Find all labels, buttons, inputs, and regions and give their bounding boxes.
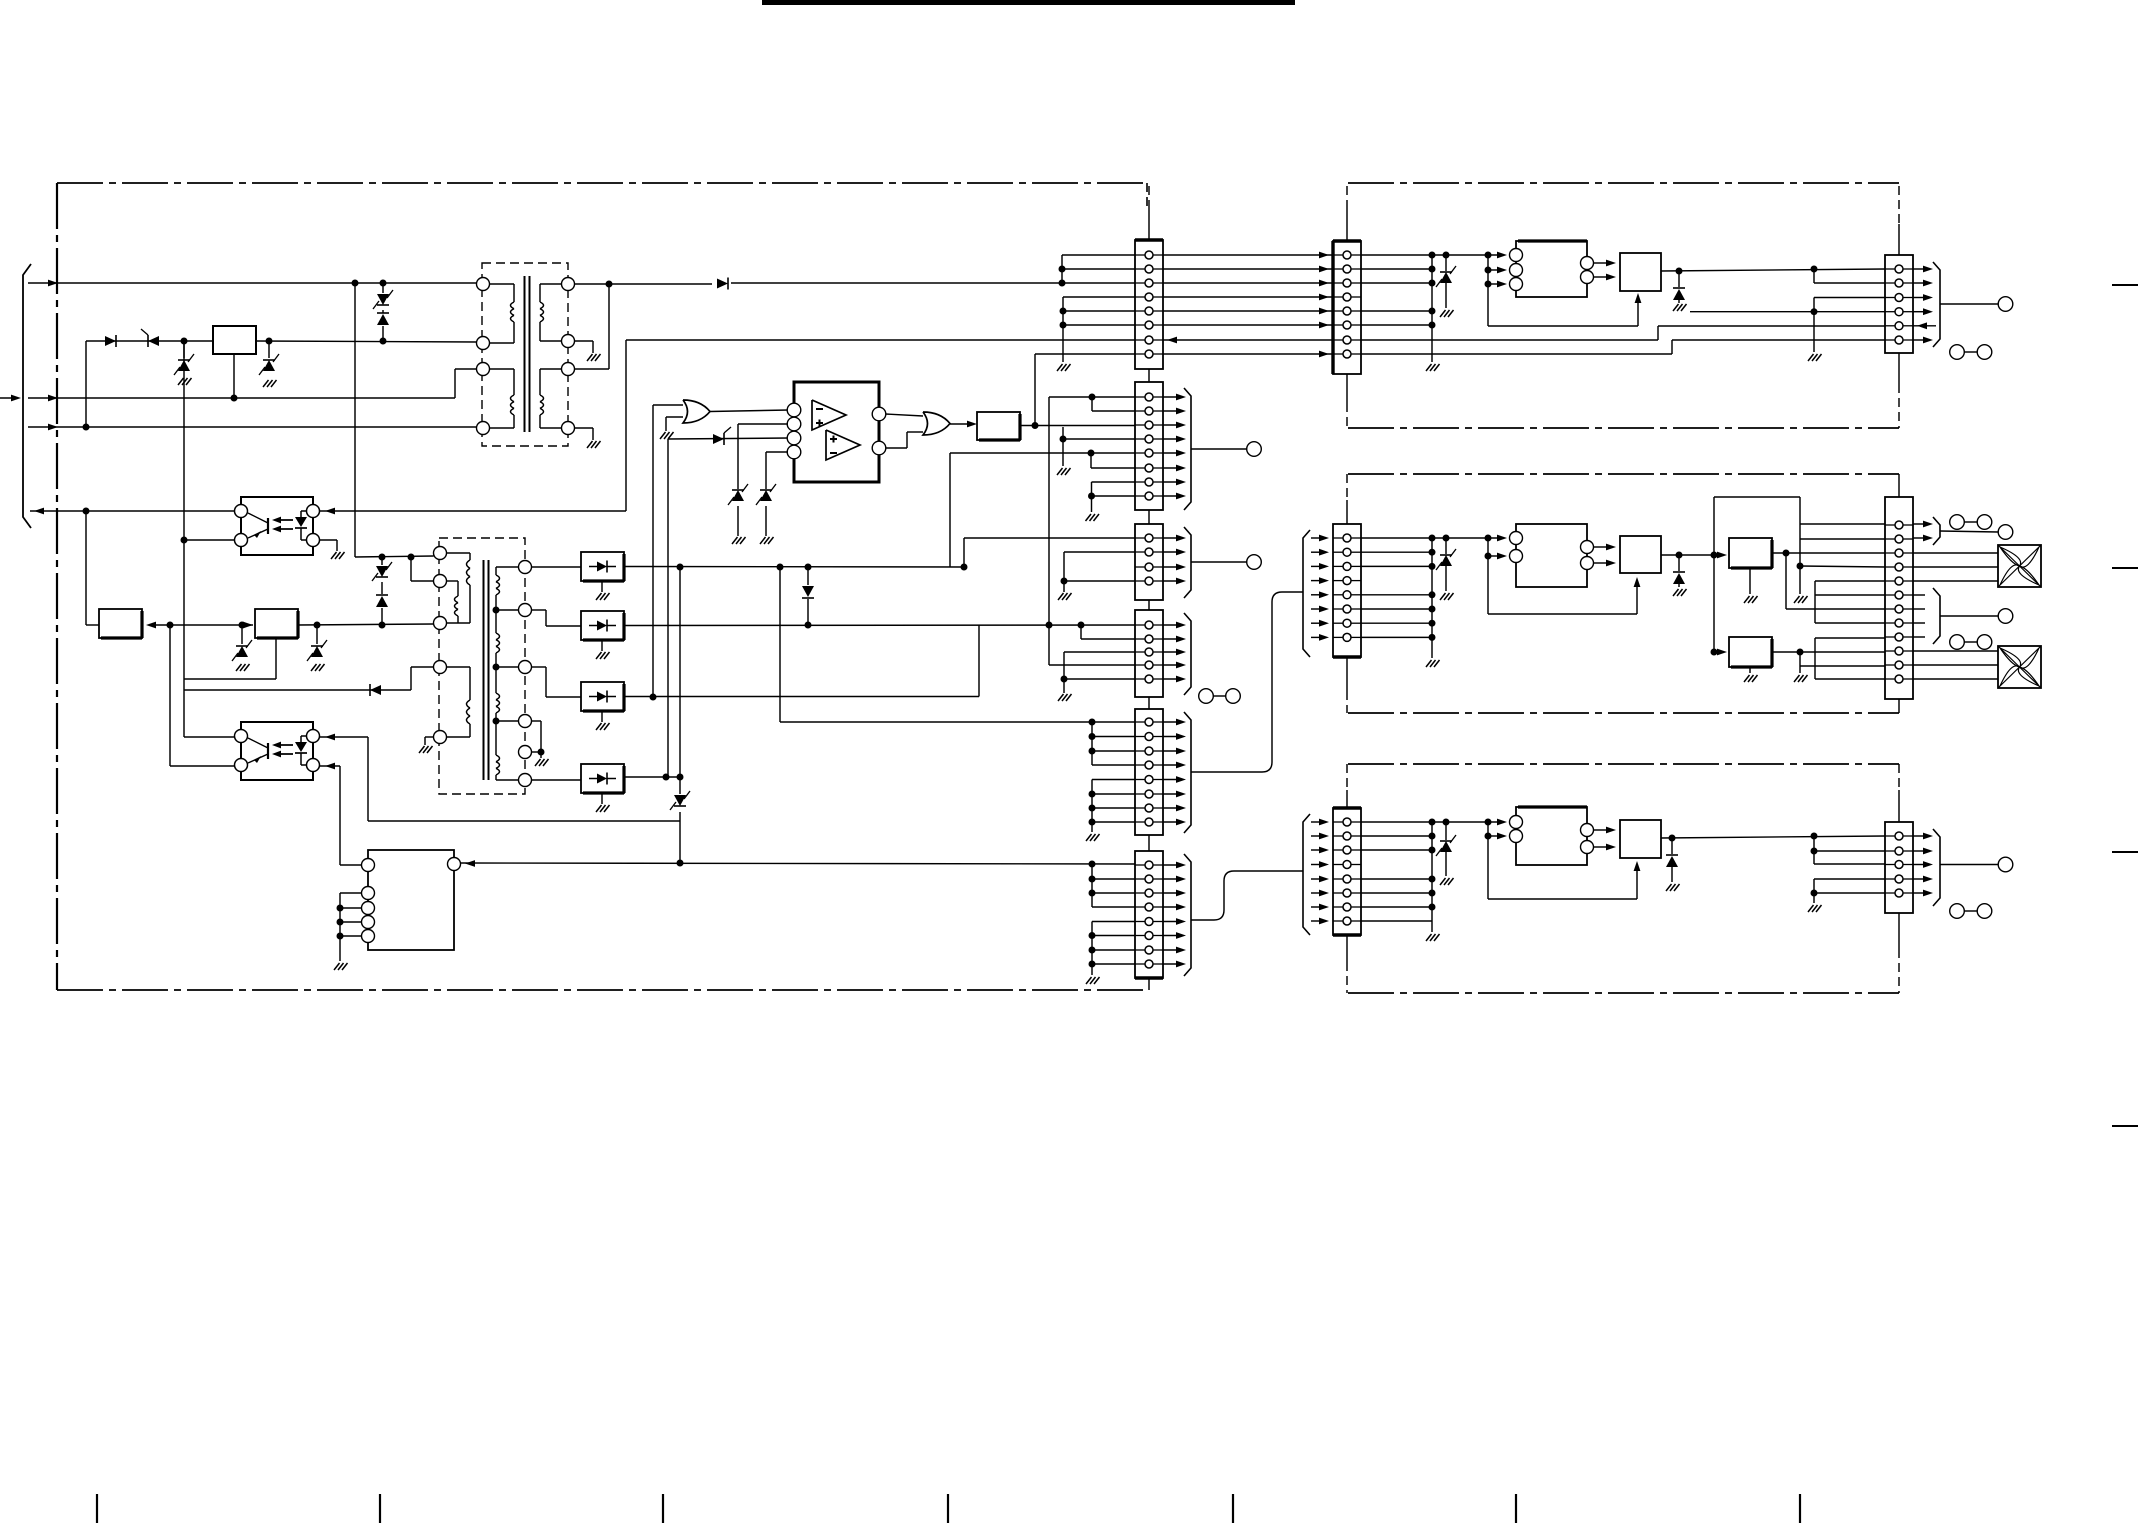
transformer T1 primary winding lower — [490, 368, 515, 370]
transformer T1 pins right — [562, 278, 575, 291]
diode D5 with ground — [1678, 271, 1680, 287]
wire PC1 cathode to x184 rail — [184, 539, 235, 541]
page footer tick marks — [97, 1494, 1800, 1523]
wire CN4 pin2 feed — [1080, 625, 1082, 639]
transformer T2 primary winding tap — [447, 580, 459, 582]
wire diode rail y690 — [184, 689, 411, 691]
zener ZD13 with ground — [1445, 255, 1447, 271]
wire CN5 pins5-8 feed with ground — [1092, 779, 1135, 781]
zener ZD15 with ground — [1445, 822, 1447, 840]
wire CN8 pin4 long — [1690, 311, 1885, 313]
comparator U1 output pins — [872, 407, 886, 421]
diode D3 pointing left — [370, 684, 381, 696]
ground B4 — [1749, 667, 1751, 673]
wire CN11 bottom stub — [1346, 935, 1348, 962]
ground DB4 — [601, 793, 603, 804]
diode D1 — [105, 335, 116, 347]
wire U4 output to B3 — [1661, 554, 1721, 556]
connector CN3 — [1135, 524, 1163, 600]
wire CN9 top stub — [1346, 500, 1348, 524]
wire CN1-CN7 rail 8 — [1163, 353, 1333, 355]
wire CN7 pin7 to CN8 pin5 — [1361, 339, 1658, 341]
rectifier box DB3 — [581, 682, 624, 711]
wire T2 pin8 to DB3 — [532, 666, 547, 668]
ground DB1 — [601, 581, 603, 592]
transformer T1 secondary winding lower — [540, 368, 562, 370]
bus x340 with ground — [339, 893, 341, 961]
transformer T2 pins left — [434, 547, 447, 560]
connector CN10 — [1885, 497, 1913, 699]
connector CN11 — [1333, 808, 1361, 935]
input harness brace — [23, 264, 31, 528]
wire CN1-CN7 rail 2 — [1163, 268, 1333, 270]
zener pair ZD8/ZD9 rail557 to rail625 — [379, 554, 386, 561]
wire brace to terminal — [1940, 531, 1998, 532]
bus left of CN1 pins1-3 — [1061, 255, 1063, 283]
wire w4 junction down to B1 — [83, 508, 90, 515]
wire G1 input 1 from vertical x653 — [653, 404, 683, 406]
wire CN12 pin4/5 with ground — [1814, 878, 1885, 880]
op-amp A1 — [812, 400, 846, 430]
opto coupler PC1 — [241, 497, 313, 555]
wire CN2 pin6 feed from rail453 — [1088, 450, 1095, 457]
jumper circles CN12 — [1950, 904, 1965, 919]
ic IC2 top pin — [362, 859, 375, 872]
opto coupler PC2 — [241, 722, 313, 780]
wire branch to CN3 pin1 — [963, 538, 965, 567]
ic IC5 motor driver — [1516, 807, 1587, 865]
middle-right board boundary — [1348, 474, 1899, 713]
wire CN11 pins2-8 ground bus — [1431, 822, 1433, 932]
wire CN2 pin2 feed — [1091, 397, 1093, 411]
wire CN6 pins2-4 feed — [1091, 864, 1093, 907]
transformer T1 shield box — [482, 263, 568, 446]
wire CN2 brace to terminal — [1191, 448, 1247, 450]
ground B3 — [1749, 568, 1751, 594]
wire A1 out to G2 — [886, 414, 924, 416]
wire T1 pin8 to ground — [575, 427, 594, 429]
connector CN1 — [1135, 240, 1163, 369]
wire CN9 bottom stub — [1346, 657, 1348, 691]
wire T2 pin11 to DB4 — [532, 779, 582, 781]
wire PC2 cathode from x170 rail — [170, 765, 235, 767]
wire CN12 brace to terminal — [1940, 864, 1998, 866]
wire IC5 outputs to U6 — [1594, 829, 1609, 831]
brace CN9 inputs — [1311, 537, 1322, 539]
block B4 — [1729, 637, 1772, 667]
comparator U1 input pins — [787, 403, 801, 417]
rectifier box DB1 — [581, 552, 624, 581]
block U1B — [977, 412, 1020, 440]
wire CN2 pin3/4 feed with ground — [1062, 427, 1064, 466]
wire CN4 pin3/5 feed with ground — [1064, 651, 1135, 653]
wire CN1-CN7 rail 4 — [1163, 296, 1333, 298]
wire CN10 bottom stub — [1898, 699, 1900, 713]
connector CN2 — [1135, 382, 1163, 510]
block U4 — [1620, 536, 1661, 573]
wire CN5 brace to CN7 harness — [1191, 592, 1303, 772]
terminal circle CN3 — [1247, 555, 1262, 570]
transformer T2 core — [483, 560, 485, 780]
title underline — [762, 0, 1295, 5]
op-amp A2 — [826, 430, 860, 460]
wire CN8 pin2 feed — [1813, 269, 1815, 283]
transformer T2 pins right — [519, 561, 532, 574]
brace CN12 outputs — [1913, 835, 1926, 837]
wire B3 branch to CN10 pin7 — [1785, 553, 1787, 609]
link CN4-CN5 — [1148, 697, 1150, 709]
rectifier box DB2 — [581, 611, 624, 640]
bottom-right board boundary — [1348, 764, 1899, 993]
jumper circles CN10a — [1950, 515, 1965, 530]
brace CN5 outputs — [1163, 721, 1180, 723]
jumper circles CN4 — [1199, 689, 1214, 704]
right edge fold marks — [2112, 285, 2138, 1126]
wire PC2 emitter (arrow in) to IC2 top pin — [320, 765, 341, 767]
block B3 — [1729, 538, 1772, 568]
ground DB3 — [601, 711, 603, 722]
jumper circles CN10b — [1950, 635, 1965, 650]
ic IC2 (bottom-left) — [368, 850, 454, 950]
diode D6 with ground — [1678, 555, 1680, 571]
arrow into B2 — [243, 622, 253, 629]
link CN3-CN4 — [1148, 600, 1150, 610]
wire CN10 pin11 feed with ground — [1799, 652, 1801, 673]
wire CN8 brace to terminal — [1940, 303, 1998, 305]
wire CN12 pin2/3 feed — [1813, 836, 1815, 864]
wire rail557 to T2 pin1 — [355, 556, 434, 557]
ground DB2 — [601, 640, 603, 651]
wire PC2 collector (arrow in) — [320, 736, 369, 738]
wire CN11 top stub — [1346, 790, 1348, 808]
wire CN6 brace to CN8 harness — [1191, 871, 1303, 920]
terminal circle CN10a — [1998, 525, 2013, 540]
wire vertical x626 to CN1 pin7 rail — [625, 340, 627, 511]
link CN5-CN6 — [1148, 835, 1150, 851]
wire CN10 top stub — [1898, 474, 1900, 497]
wire CN10 to fan M1 — [1913, 552, 1998, 554]
wire CN1-CN7 rail 3 — [1163, 282, 1333, 284]
wire A2 out to G2 — [886, 447, 908, 449]
terminal circle CN12 — [1998, 857, 2013, 872]
wire main +V rail to CN1 — [609, 283, 712, 285]
wire B3 output to CN10 pin3 — [1772, 552, 1885, 554]
wire CN12 top stub — [1898, 790, 1900, 822]
block U6 — [1620, 820, 1661, 858]
wire CN10 pin6 feed — [1815, 594, 1885, 596]
wire feedback to U6 — [1487, 836, 1489, 899]
wire vertical x368 PC2 to y821 rail — [367, 737, 369, 821]
or-gate G1 — [683, 400, 710, 423]
wire T2 pin5 ground — [425, 736, 434, 738]
wire CN10 pin9/pin12 loop — [1815, 637, 1885, 639]
ic IC3 motor driver — [1516, 241, 1587, 297]
bus x1488 to IC5 inputs — [1487, 822, 1489, 836]
wire IC3 outputs to U2 — [1594, 262, 1609, 264]
ic IC4 motor driver — [1516, 524, 1587, 587]
wire CN10 pin5/pin8 loop — [1815, 580, 1885, 582]
terminal circle CN8 — [1998, 297, 2013, 312]
wire CN9 pins2-8 ground bus — [1431, 538, 1433, 658]
wire CN1-CN7 rail 1 — [1163, 254, 1333, 256]
diode D7 with ground — [1671, 838, 1673, 854]
zener ZD7 with ground at B2 output — [316, 625, 318, 644]
wire T1 pin6 to ground — [575, 340, 594, 342]
zener ZD10 on comparator pin2 — [738, 423, 788, 425]
wire CN1 pin7 rail — [626, 339, 1135, 341]
wire CN10 pin2 feed — [1800, 538, 1885, 540]
wire CN3 pin2/pin4 ground bus — [1064, 551, 1135, 553]
wire rail722 to CN5 pin1 — [777, 564, 784, 571]
wire U2 output to CN8 pin1 — [1661, 269, 1885, 271]
diode D4 rail567 to rail625 — [807, 567, 809, 585]
wire PC1 emitter to ground — [320, 539, 338, 541]
comparator block U1 — [794, 382, 879, 482]
wire CN6 pins5-8 feed with ground — [1092, 921, 1135, 923]
vertical rail x184 — [183, 341, 185, 737]
wire CN3 brace to terminal — [1191, 561, 1247, 563]
wire w2 jog to T1 pin3 — [454, 369, 456, 398]
wire CN12 bottom stub — [1898, 913, 1900, 949]
jumper circles CN8 — [1950, 345, 1965, 360]
wire CN7 pin1 to IC3 — [1361, 254, 1499, 256]
wire rail 625 (DB2 output) — [624, 624, 1135, 627]
wire into B1 (arrow left) — [150, 624, 253, 626]
bus x1488 to IC3 inputs — [1487, 255, 1489, 326]
wire CN5 pins2-4 feed — [1091, 722, 1093, 765]
wire T2 pin7 to DB2 — [532, 609, 547, 611]
wire B2 feedback from x184 rail — [184, 678, 276, 680]
wire CN8 bottom stub — [1898, 353, 1900, 384]
wire VR1 bottom to input2 — [233, 354, 235, 398]
wire CN10 pin4 feed with ground — [1797, 563, 1804, 570]
wire G1 input 2 with ground — [666, 416, 683, 418]
wire CN7 pins2-6 ground bus — [1431, 255, 1433, 362]
wire feedback to U4 — [1487, 556, 1489, 614]
brace CN10 pins6-9 — [1913, 594, 1925, 596]
wire CN1-CN7 rail 6 — [1163, 324, 1333, 326]
bus x1488 to IC4 inputs — [1487, 538, 1489, 556]
wire CN11 pin1 to IC5 — [1361, 821, 1499, 823]
transformer T2 primary winding lower — [447, 666, 471, 668]
connector CN12 — [1885, 822, 1913, 913]
wire branch to CN2 pin5 — [949, 453, 951, 567]
link CN2-CN3 — [1148, 510, 1150, 524]
transformer T1 core — [524, 276, 526, 432]
zener diode ZD2 with ground — [183, 341, 185, 358]
wire CN7 top stub — [1346, 203, 1348, 241]
wire rail 697 (DB3 output) — [624, 696, 979, 698]
vertical rail x170 to PC2 — [169, 625, 171, 766]
transformer T1 primary winding upper — [490, 283, 515, 285]
terminal circle CN2 — [1247, 442, 1262, 457]
wire CN8 pin3/4 with ground — [1814, 297, 1885, 299]
wire U6 output to CN12 pin1 — [1661, 836, 1885, 838]
wire CN1 top stub to border — [1148, 205, 1150, 240]
wire comparator pin3 input with zener — [668, 438, 789, 439]
wire T1 secondary upper out — [575, 283, 610, 285]
ic IC2 left pins — [362, 887, 375, 900]
wire input 1 — [28, 282, 477, 284]
wire CN2 pin7/8 feed with ground — [1092, 481, 1136, 483]
wire T2 center tap ground — [532, 720, 542, 722]
transformer T1 pins left — [477, 278, 490, 291]
wire external arrow into input 2 — [0, 397, 17, 399]
wire B2 output to T2 pin3 — [298, 624, 434, 625]
wire T2 pin2 feed — [410, 557, 412, 581]
wire input 3 — [28, 426, 477, 428]
connector CN8 — [1885, 255, 1913, 353]
wire vertical x667 long — [667, 439, 669, 777]
connector CN4 — [1135, 610, 1163, 697]
wire brace to terminal CN10b — [1940, 615, 1998, 617]
zener diode ZD3 with ground — [268, 341, 270, 358]
fan motor M2 — [1998, 646, 2041, 688]
wire T2 pin6 to DB1 — [532, 566, 582, 568]
connector CN9 — [1333, 524, 1361, 657]
rectifier box DB4 — [581, 764, 624, 793]
wire rail 863 to CN6 pin1 — [461, 863, 1136, 864]
transformer T2 primary winding upper — [447, 552, 471, 554]
voltage regulator IC VR1 — [213, 326, 256, 354]
wire CN7 pin8 to CN8 pin6 — [1361, 353, 1672, 355]
block B1 — [99, 609, 142, 638]
zener ZD14 with ground — [1445, 538, 1447, 554]
wire CN9 pin1 to IC4 — [1361, 537, 1499, 539]
wire G1 output to comparator — [710, 410, 789, 412]
wire rail 567 (DB1 output) — [624, 566, 964, 569]
connector CN5 — [1135, 709, 1163, 835]
wire CN1-CN7 rail 5 — [1163, 310, 1333, 312]
terminal circle CN10b — [1998, 609, 2013, 624]
brace CN3 outputs — [1163, 537, 1180, 539]
top-right board boundary — [1348, 183, 1899, 428]
wire PC1 output collector (arrow in) — [320, 510, 627, 512]
wire IC4 outputs to U4 — [1594, 546, 1609, 548]
link CN1-CN2 — [1148, 369, 1150, 382]
wire CN2 pin1 feed — [1049, 396, 1135, 398]
transformer T2 secondary winding chain — [496, 566, 519, 568]
ic IC2 right pin — [448, 858, 461, 871]
wire B4 output to CN10 pin10 — [1772, 651, 1885, 653]
left board boundary (dash-dot box) — [57, 183, 1149, 990]
vertical x1049 long — [1048, 397, 1050, 665]
zener pair ZD4/ZD5 across input1 and regulator rail — [380, 280, 387, 287]
fan motor M1 — [1998, 545, 2041, 587]
brace CN10 pins1-2 — [1913, 523, 1926, 525]
brace CN2 outputs — [1163, 396, 1180, 398]
or-gate G2 — [923, 412, 950, 435]
wire CN4 pin4 feed — [1049, 664, 1135, 666]
brace CN11 inputs — [1311, 821, 1322, 823]
wire CN10 to fan M2 — [1913, 650, 1998, 652]
brace CN8 outputs — [1913, 268, 1926, 270]
wire CN7 bottom stub — [1346, 374, 1348, 403]
transformer T2 shield box — [439, 538, 525, 794]
connector CN7 — [1333, 241, 1361, 374]
zener ZD6 with ground at B2 input — [241, 625, 243, 644]
wire rail697 riser — [978, 625, 980, 697]
node dot B — [266, 338, 273, 345]
wire into B4 — [1711, 649, 1718, 656]
diode D2 — [717, 278, 728, 290]
wire loop up to CN10 pin1 — [1713, 497, 1715, 652]
wire vertical x355 from input1 — [352, 280, 359, 287]
node dot A — [181, 338, 188, 345]
wire G2 output arrow — [950, 423, 973, 425]
block B2 — [255, 609, 298, 638]
zener ZD11 on comparator pin4 — [766, 451, 788, 453]
brace CN4 outputs — [1163, 624, 1180, 626]
wire input 2 — [28, 397, 455, 399]
wire U1B output to CN1 pin8 and CN2 pin3 — [1020, 425, 1135, 427]
connector CN6 — [1135, 851, 1163, 978]
wire output 4 (to left) — [30, 510, 235, 512]
wire rail 777 (DB4 output) — [624, 776, 680, 778]
brace CN6 outputs — [1163, 864, 1180, 866]
wire feedback to U2 — [1488, 325, 1638, 327]
link CN6 to border — [1148, 978, 1150, 990]
wire vertical x680 with zener ZD12 — [679, 567, 681, 794]
junction vertical w3 — [85, 341, 87, 427]
wire PC2 anode from x184 rail — [184, 736, 235, 738]
wire CN1-CN7 rail 7 (return) — [1163, 339, 1333, 341]
block U2 — [1620, 253, 1661, 291]
transformer T1 secondary winding upper — [540, 283, 562, 285]
zener diode ZD1 — [141, 329, 159, 347]
wire regulator rail — [86, 340, 213, 342]
wire y821 rail — [368, 820, 680, 822]
wire CN8 top stub — [1898, 224, 1900, 255]
bus left of CN1 pins4-6 with ground — [1062, 297, 1064, 362]
